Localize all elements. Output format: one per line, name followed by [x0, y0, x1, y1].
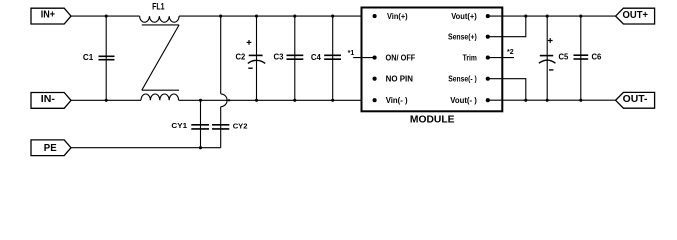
svg-text:C5: C5: [559, 52, 569, 62]
wire IN- rail right segment to module: [179, 99, 375, 101]
capacitor C1: [83, 16, 115, 100]
svg-text:C2: C2: [236, 52, 246, 62]
pin Vin(+): [373, 12, 408, 21]
capacitor C5: [539, 16, 569, 100]
wire IN+ rail left segment: [71, 15, 140, 17]
junction C2 bottom: [255, 99, 258, 102]
pin Sense(-): [448, 74, 490, 83]
wire IN+ rail right segment to module: [179, 15, 374, 17]
junction C4 bottom: [331, 99, 334, 102]
terminal PE: [31, 140, 71, 156]
junction Sense(+) on Vout+ rail: [524, 15, 527, 18]
junction C6 top: [579, 15, 582, 18]
capacitor C6: [574, 16, 602, 100]
svg-text:*1: *1: [348, 50, 355, 57]
wire Vout+ rail: [488, 15, 616, 17]
svg-text:FL1: FL1: [152, 0, 165, 11]
svg-text:IN-: IN-: [41, 94, 56, 105]
terminal IN-: [31, 93, 71, 109]
svg-text:C3: C3: [274, 52, 284, 62]
svg-text:NO PIN: NO PIN: [386, 74, 414, 83]
svg-text:CY2: CY2: [233, 121, 248, 130]
junction Sense(-) on Vout- rail: [524, 99, 527, 102]
svg-text:PE: PE: [44, 143, 57, 154]
wire Trim stub with *2: [488, 49, 514, 58]
capacitor CY1: [171, 100, 209, 147]
pin NO PIN: [373, 74, 414, 83]
svg-text:MODULE: MODULE: [410, 115, 455, 126]
svg-text:CY1: CY1: [171, 121, 187, 130]
svg-text:C1: C1: [83, 52, 94, 62]
svg-text:Sense(+): Sense(+): [448, 33, 477, 42]
svg-text:IN+: IN+: [41, 10, 55, 21]
wire PE rail: [71, 147, 221, 149]
wire IN- rail left segment: [71, 99, 141, 101]
wire Sense(-) jog: [488, 79, 526, 101]
svg-text:Sense(- ): Sense(- ): [448, 74, 477, 83]
svg-text:Vin(- ): Vin(- ): [386, 96, 408, 105]
crossover blob on IN- rail: [228, 99, 230, 101]
svg-text:Vout(+): Vout(+): [451, 12, 477, 21]
wire ON/OFF stub with *1: [348, 50, 375, 58]
junction C4 top: [331, 15, 334, 18]
capacitor C3: [274, 16, 304, 100]
pin Trim: [463, 53, 490, 62]
svg-text:Vin(+): Vin(+): [387, 12, 408, 21]
svg-text:OUT+: OUT+: [623, 10, 649, 21]
svg-text:Vout(- ): Vout(- ): [450, 96, 477, 105]
pin Sense(+): [448, 33, 490, 42]
wire Vout- rail: [488, 99, 616, 101]
terminal OUT+: [616, 8, 655, 24]
junction CY2 top on IN+ rail: [219, 15, 222, 18]
junction C5 bottom: [546, 99, 549, 102]
junction C6 bottom: [579, 99, 582, 102]
junction C2 top: [255, 15, 258, 18]
wire Sense(+) jog: [488, 16, 526, 37]
junction C1 top: [105, 15, 108, 18]
svg-text:OUT-: OUT-: [623, 94, 648, 105]
pin Vout(-): [450, 96, 490, 105]
svg-text:*2: *2: [507, 49, 514, 56]
pin Vout(+): [451, 12, 490, 21]
capacitor C2: [236, 16, 266, 100]
terminal IN+: [31, 8, 71, 24]
capacitor CY2: [212, 16, 248, 148]
pin ON/OFF: [373, 53, 416, 62]
svg-text:C4: C4: [311, 52, 321, 62]
junction CY1 top: [199, 99, 202, 102]
terminal OUT-: [616, 92, 655, 108]
junction C3 top: [293, 15, 296, 18]
svg-text:C6: C6: [592, 52, 602, 62]
junction CY1 bottom on PE rail: [199, 146, 202, 149]
svg-text:ON/ OFF: ON/ OFF: [386, 53, 416, 62]
svg-text:Trim: Trim: [463, 53, 477, 62]
capacitor C4: [311, 16, 341, 100]
module U1 box: [362, 8, 503, 126]
junction C1 bottom: [105, 99, 108, 102]
pin Vin(-): [373, 96, 408, 105]
junction C5 top: [546, 15, 549, 18]
junction C3 bottom: [293, 99, 296, 102]
common-mode choke FL1: [140, 0, 180, 100]
